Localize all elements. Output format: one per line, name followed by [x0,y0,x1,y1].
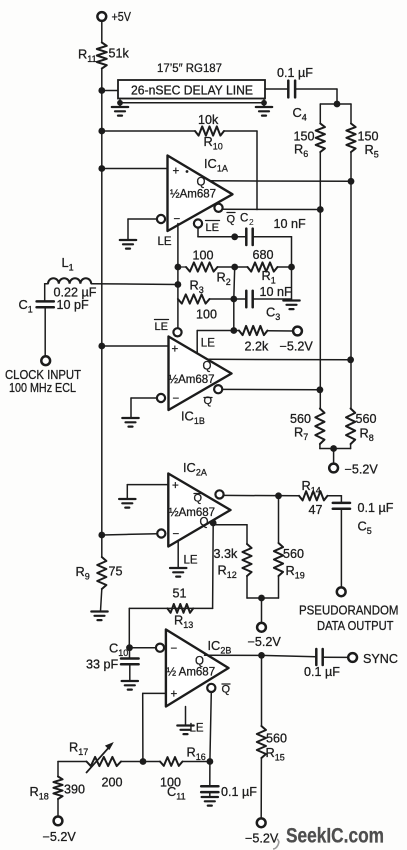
svg-text:+: + [171,689,178,701]
svg-text:0.1 µF: 0.1 µF [304,665,340,679]
svg-text:17’5″ RG187: 17’5″ RG187 [157,61,222,75]
svg-text:2: 2 [249,217,254,227]
svg-text:560: 560 [266,732,287,746]
svg-text:SeekIC.com: SeekIC.com [286,824,384,848]
svg-text:−: − [171,643,178,655]
svg-text:560: 560 [283,547,304,561]
svg-text:LE: LE [190,723,204,735]
svg-text:+: + [172,344,179,356]
svg-text:10 pF: 10 pF [57,298,90,312]
svg-text:Q: Q [222,684,231,696]
svg-text:10k: 10k [198,113,219,127]
svg-text:C: C [240,213,248,225]
svg-text:Q: Q [200,517,209,529]
svg-text:½Am687: ½Am687 [170,189,216,201]
svg-text:680: 680 [253,248,274,262]
svg-text:−5.2V: −5.2V [345,463,379,477]
svg-text:LE: LE [206,222,219,234]
svg-text:SYNC: SYNC [363,652,398,666]
svg-text:−: − [174,214,181,226]
svg-text:½ Am687: ½ Am687 [167,667,216,679]
svg-text:LE: LE [201,338,215,350]
svg-text:Q: Q [197,177,206,189]
svg-text:½Am687: ½Am687 [169,374,215,386]
svg-text:LE: LE [155,321,168,333]
svg-text:390: 390 [64,783,85,797]
svg-text:47: 47 [309,503,323,517]
svg-text:Q: Q [227,214,236,226]
svg-text:100: 100 [193,249,214,263]
svg-text:0.1 µF: 0.1 µF [358,501,394,515]
svg-text:−: − [173,393,180,405]
svg-text:Q: Q [204,395,213,407]
svg-text:75: 75 [109,565,123,579]
svg-text:−5.2V: −5.2V [248,635,282,649]
svg-text:26-nSEC DELAY LINE: 26-nSEC DELAY LINE [131,84,253,98]
svg-text:0.1 µF: 0.1 µF [221,785,257,799]
svg-text:3.3k: 3.3k [214,547,239,561]
svg-text:−: − [173,529,180,541]
svg-text:2.2k: 2.2k [245,340,270,354]
svg-text:−5.2V: −5.2V [245,832,279,846]
svg-text:51k: 51k [109,47,130,61]
svg-text:LE: LE [184,555,198,567]
svg-text:51: 51 [173,587,187,601]
svg-text:10 nF: 10 nF [274,217,307,231]
svg-text:DATA OUTPUT: DATA OUTPUT [317,618,394,633]
svg-text:PSEUDORANDOM: PSEUDORANDOM [299,603,399,618]
svg-text:+: + [173,166,180,178]
svg-text:33 pF: 33 pF [86,658,119,672]
svg-text:Q: Q [203,361,212,373]
svg-text:100: 100 [196,308,217,322]
svg-text:+5V: +5V [112,9,132,24]
svg-text:+: + [172,480,179,492]
svg-text:10 nF: 10 nF [260,285,293,299]
svg-text:Q: Q [194,493,203,505]
svg-text:200: 200 [102,776,123,790]
svg-text:−5.2V: −5.2V [280,340,314,354]
svg-text:0.1 µF: 0.1 µF [277,66,313,80]
svg-text:100 MHz ECL: 100 MHz ECL [9,380,76,395]
svg-text:560: 560 [356,412,377,426]
svg-text:LE: LE [158,236,172,248]
svg-text:−5.2V: −5.2V [43,830,77,844]
